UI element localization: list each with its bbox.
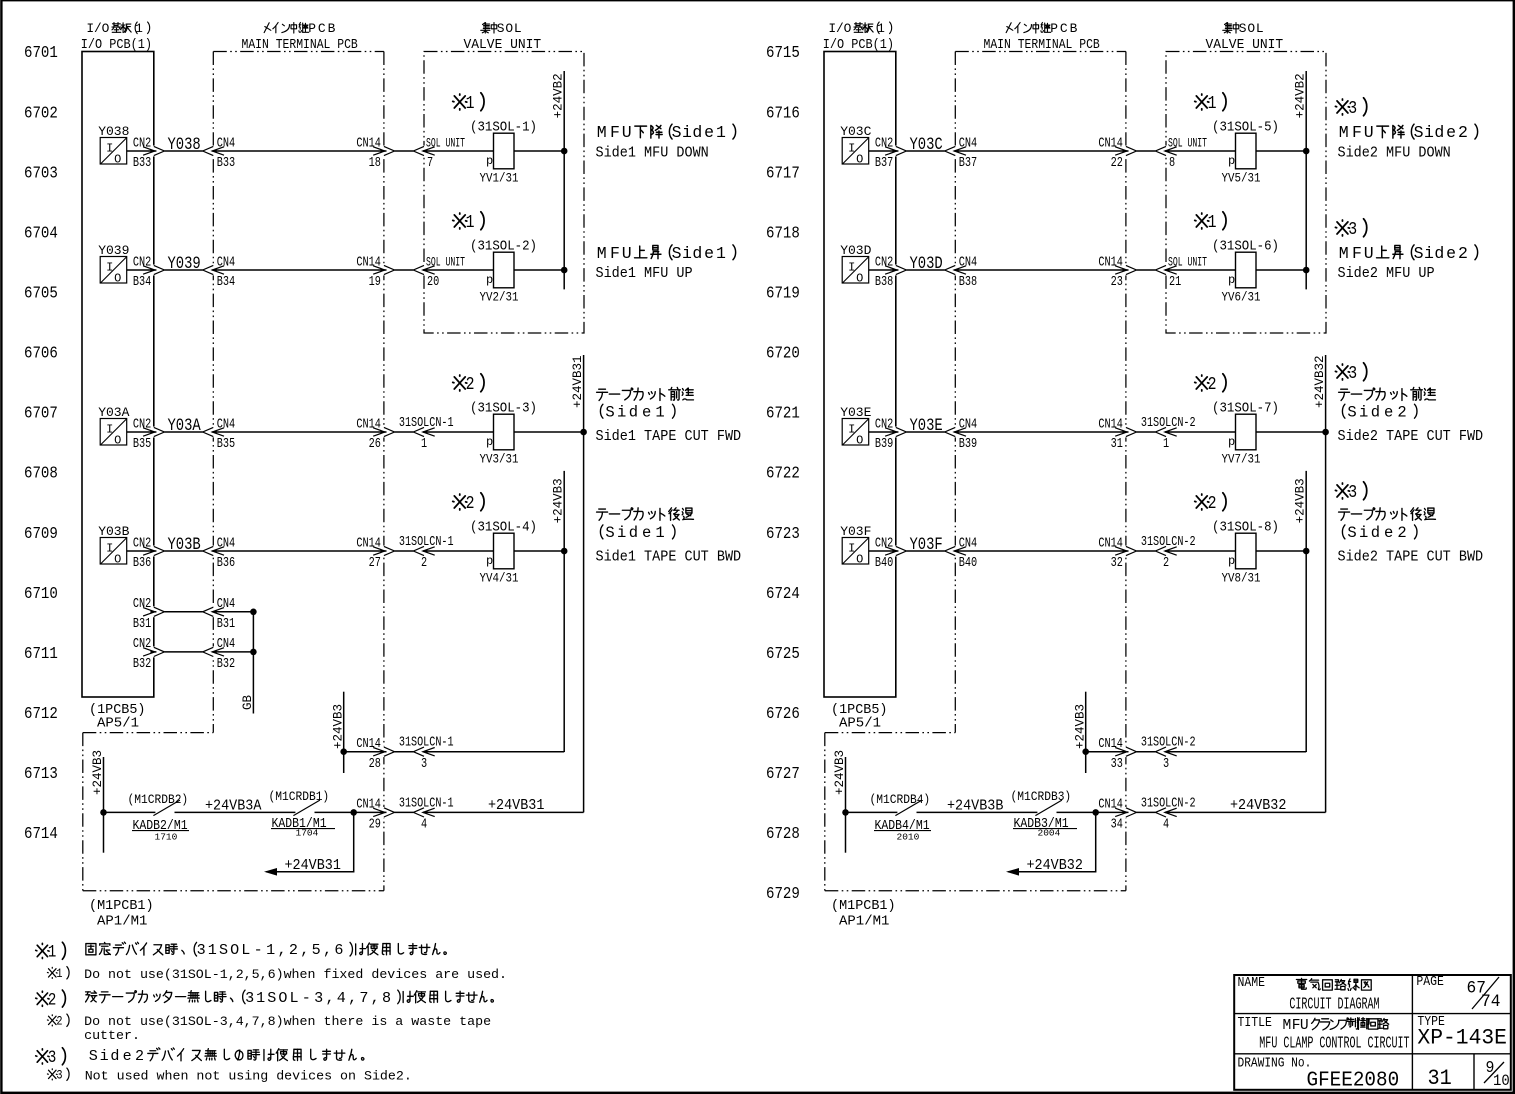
svg-text:e: e <box>642 403 651 421</box>
junction dot <box>250 649 257 656</box>
junction dot <box>340 748 347 755</box>
wire <box>164 651 202 653</box>
+24VB3 power stub at left <box>845 757 847 853</box>
svg-text:1: 1 <box>466 213 475 234</box>
svg-text:B33: B33 <box>133 155 151 171</box>
svg-text:O: O <box>856 553 863 567</box>
svg-text:I: I <box>106 142 113 156</box>
wire <box>917 811 1038 813</box>
net line-number column 6701..6714 <box>24 43 58 63</box>
connector CN14 pin 27 <box>373 546 394 555</box>
svg-text:1: 1 <box>877 21 885 36</box>
svg-text:2: 2 <box>421 555 427 571</box>
svg-text:CN4: CN4 <box>959 535 977 551</box>
svg-text:(31SOL-2): (31SOL-2) <box>470 238 537 254</box>
svg-text:SOL UNIT: SOL UNIT <box>426 137 465 151</box>
net label Y03A <box>168 415 202 435</box>
connector CN14 pin 18 <box>373 146 394 155</box>
svg-text:S: S <box>605 524 614 542</box>
connector CN4 pin B33 <box>203 146 224 155</box>
svg-text:Y03A: Y03A <box>98 405 129 420</box>
svg-text:+24VB32: +24VB32 <box>1313 355 1327 408</box>
note *2 (Japanese): no waste tape cutter <box>36 991 49 1006</box>
svg-text:p: p <box>1228 273 1235 287</box>
junction dot <box>842 809 849 816</box>
svg-text:e: e <box>1384 403 1393 421</box>
svg-text:F: F <box>1352 123 1362 142</box>
svg-text:S: S <box>1414 244 1424 263</box>
svg-text:O: O <box>856 153 863 167</box>
svg-text:YV3/31: YV3/31 <box>480 452 519 467</box>
svg-text:B40: B40 <box>959 555 977 571</box>
connector SOL UNIT pin 8 <box>1155 146 1176 155</box>
wire <box>514 150 564 152</box>
svg-text:GB: GB <box>241 694 255 710</box>
svg-text:(M1PCB1): (M1PCB1) <box>831 898 896 914</box>
svg-text:O: O <box>114 153 121 167</box>
svg-text:3: 3 <box>1348 99 1357 120</box>
net label +24VB32 <box>1230 797 1286 814</box>
svg-text:31SOLCN-1: 31SOLCN-1 <box>399 534 454 550</box>
svg-text:31: 31 <box>1111 436 1123 452</box>
solenoid valve YV2/31 (31SOL-2) <box>494 252 515 288</box>
I/O output symbol Y039 <box>100 257 127 284</box>
solenoid valve YV6/31 (31SOL-6) <box>1236 252 1257 288</box>
svg-text:B36: B36 <box>217 555 235 571</box>
wire <box>846 811 898 813</box>
wire <box>104 811 156 813</box>
wire <box>869 550 898 552</box>
svg-text:CN4: CN4 <box>217 254 235 270</box>
net label +24VB3B <box>947 798 1003 815</box>
title block TITLE cell: MFU CLAMP CONTROL CIRCUIT <box>1238 1014 1273 1030</box>
svg-text:AP1/M1: AP1/M1 <box>97 914 147 930</box>
title block DRAWING No. cell: GFEE2080 <box>1238 1054 1312 1071</box>
connector CN2 pin B36 <box>143 546 164 555</box>
svg-text:6715: 6715 <box>766 43 800 63</box>
connector CN14 pin 33 <box>1115 747 1136 756</box>
junction dot <box>561 267 568 274</box>
junction dot <box>1092 809 1099 816</box>
svg-text:CIRCUIT DIAGRAM: CIRCUIT DIAGRAM <box>1289 995 1379 1014</box>
svg-text:O: O <box>114 553 121 567</box>
note *3 (Japanese): not used without Side2 devices <box>36 1049 49 1064</box>
connector 31SOLCN-2 pin 3 <box>1155 747 1176 756</box>
svg-text:B37: B37 <box>959 155 977 171</box>
svg-text:CN14: CN14 <box>356 796 381 812</box>
connector CN4 pin B38 <box>945 265 966 274</box>
wire <box>1256 269 1306 271</box>
svg-text:YV5/31: YV5/31 <box>1222 171 1261 186</box>
svg-text:28: 28 <box>369 755 381 771</box>
branch arrow +24VB32 <box>1008 812 1096 871</box>
svg-text:YV4/31: YV4/31 <box>480 571 519 586</box>
svg-text:CN4: CN4 <box>959 416 977 432</box>
solenoid valve YV3/31 (31SOL-3) <box>494 414 515 450</box>
wire <box>906 269 944 271</box>
connector CN14 pin 22 <box>1115 146 1136 155</box>
svg-text:26: 26 <box>369 436 381 452</box>
svg-text:1: 1 <box>655 403 664 421</box>
svg-text:B39: B39 <box>959 436 977 452</box>
wire <box>954 431 1128 433</box>
junction dot <box>250 609 257 616</box>
svg-text:3: 3 <box>1163 755 1169 771</box>
svg-text:B36: B36 <box>133 555 151 571</box>
svg-text:Side1 TAPE CUT FWD: Side1 TAPE CUT FWD <box>596 429 742 446</box>
I/O output symbol Y03E <box>842 419 869 446</box>
junction dot <box>561 148 568 155</box>
svg-text:B34: B34 <box>133 274 151 290</box>
net label +24VB31 <box>488 797 544 814</box>
wire <box>127 269 156 271</box>
wire <box>1137 751 1156 753</box>
svg-text:1: 1 <box>266 941 275 959</box>
svg-text:10: 10 <box>1493 1073 1510 1090</box>
svg-text:6719: 6719 <box>766 283 800 303</box>
svg-text:I: I <box>106 261 113 275</box>
svg-text:3: 3 <box>314 989 323 1007</box>
note *2 (English) <box>47 1015 57 1026</box>
svg-text:(M1CRDB1): (M1CRDB1) <box>269 789 330 804</box>
svg-text:CN14: CN14 <box>1098 535 1123 551</box>
svg-text:I: I <box>848 142 855 156</box>
svg-text:+24VB3: +24VB3 <box>1073 704 1087 749</box>
net line-number column 6715..6729 <box>766 43 800 63</box>
svg-text:3: 3 <box>197 941 206 959</box>
I/O PCB(1) board box <box>824 52 896 698</box>
svg-text:Side2 TAPE CUT BWD: Side2 TAPE CUT BWD <box>1338 549 1484 566</box>
net label Y039 <box>168 253 201 273</box>
svg-text:d: d <box>1371 403 1380 421</box>
connector 31SOLCN-2 pin 2 <box>1155 546 1176 555</box>
svg-text:I: I <box>848 542 855 556</box>
svg-text:SOL UNIT: SOL UNIT <box>1168 137 1207 151</box>
connector SOL UNIT pin 7 <box>413 146 434 155</box>
svg-text:(M1PCB1): (M1PCB1) <box>89 898 154 914</box>
svg-text:22: 22 <box>1111 155 1123 171</box>
svg-text:6706: 6706 <box>24 343 58 363</box>
svg-text:S: S <box>672 244 682 263</box>
svg-text:/: / <box>836 21 844 36</box>
svg-text:YV6/31: YV6/31 <box>1222 290 1261 305</box>
connector CN4 pin B40 <box>945 546 966 555</box>
board label (M1PCB1) AP1/M1 <box>831 898 896 914</box>
svg-text:6713: 6713 <box>24 764 58 784</box>
svg-text:5: 5 <box>312 941 321 959</box>
svg-text:CN2: CN2 <box>133 135 151 151</box>
+24VB3 power stub at left <box>103 757 105 853</box>
title block frame <box>1234 975 1511 1090</box>
svg-text:GFEE2080: GFEE2080 <box>1307 1069 1400 1093</box>
board label (1PCB5) AP5/1 <box>89 702 145 718</box>
svg-text:CN2: CN2 <box>133 535 151 551</box>
svg-text:i: i <box>1359 524 1368 542</box>
connector SOL UNIT pin 20 <box>413 265 434 274</box>
svg-text:F: F <box>1352 244 1362 263</box>
svg-text:,: , <box>323 941 332 959</box>
svg-text:2010: 2010 <box>897 831 920 842</box>
+24VB3 power bus <box>1305 471 1307 752</box>
svg-text:(M1CRDB2): (M1CRDB2) <box>128 792 189 807</box>
solenoid valve YV5/31 (31SOL-5) <box>1236 133 1257 169</box>
svg-text:CN4: CN4 <box>959 254 977 270</box>
junction dot <box>1303 148 1310 155</box>
I/O PCB(1) board box <box>82 52 154 698</box>
svg-text:1: 1 <box>256 989 265 1007</box>
note mark *2 for (31SOL-7) <box>1195 375 1209 391</box>
wire <box>423 269 494 271</box>
svg-text:U: U <box>1300 1018 1309 1034</box>
svg-text:Y038: Y038 <box>98 124 129 139</box>
svg-text:VALVE UNIT: VALVE UNIT <box>1206 37 1284 52</box>
svg-text:L: L <box>241 941 250 959</box>
board label (1PCB5) AP5/1 <box>831 702 887 718</box>
svg-text:I/O PCB(1): I/O PCB(1) <box>823 37 894 53</box>
svg-text:6705: 6705 <box>24 283 58 303</box>
svg-text:CN14: CN14 <box>1098 135 1123 151</box>
solenoid valve YV8/31 (31SOL-8) <box>1236 533 1257 569</box>
svg-text:SOL UNIT: SOL UNIT <box>1168 256 1207 270</box>
wire <box>164 550 202 552</box>
svg-text:CN14: CN14 <box>356 254 381 270</box>
svg-text:MFU CLAMP CONTROL CIRCUIT: MFU CLAMP CONTROL CIRCUIT <box>1259 1034 1409 1053</box>
connector gaps in board edges <box>894 146 898 157</box>
junction dot <box>561 548 568 555</box>
svg-text:6722: 6722 <box>766 464 800 484</box>
svg-text:1710: 1710 <box>155 831 178 842</box>
svg-text:YV8/31: YV8/31 <box>1222 571 1261 586</box>
svg-text:YV7/31: YV7/31 <box>1222 452 1261 467</box>
svg-text:B32: B32 <box>133 656 151 672</box>
svg-text:B34: B34 <box>217 274 235 290</box>
svg-text:Side2 TAPE CUT FWD: Side2 TAPE CUT FWD <box>1338 429 1484 446</box>
svg-text:6727: 6727 <box>766 764 800 784</box>
svg-text:i: i <box>100 1047 109 1065</box>
svg-text:CN2: CN2 <box>133 416 151 432</box>
svg-text:e: e <box>1446 123 1456 142</box>
output label TAPE CUT FWD (Side2) <box>1335 364 1349 380</box>
connector CN2 pin B35 <box>143 427 164 436</box>
svg-text:d: d <box>1371 524 1380 542</box>
svg-text:CN4: CN4 <box>959 135 977 151</box>
net label Y03B <box>168 534 202 554</box>
wire <box>1086 751 1129 753</box>
svg-text:M: M <box>1283 1018 1292 1034</box>
branch arrow +24VB31 <box>266 812 354 871</box>
connector 31SOLCN-1 pin 2 <box>413 546 434 555</box>
svg-text:XP-143E: XP-143E <box>1417 1025 1507 1050</box>
svg-text:+24VB32: +24VB32 <box>1027 857 1083 874</box>
svg-text:6712: 6712 <box>24 704 58 724</box>
svg-text:6729: 6729 <box>766 884 800 904</box>
svg-text:+24VB3B: +24VB3B <box>947 798 1003 815</box>
wire <box>1165 751 1306 753</box>
svg-text:+24VB3: +24VB3 <box>552 478 566 523</box>
svg-text:31SOLCN-2: 31SOLCN-2 <box>1141 734 1196 750</box>
svg-text:Do not use(31SOL-3,4,7,8)when: Do not use(31SOL-3,4,7,8)when there is a… <box>84 1014 491 1029</box>
svg-text:2: 2 <box>1208 494 1217 515</box>
svg-text:Not used when not using device: Not used when not using devices on Side2… <box>85 1069 412 1084</box>
wire <box>1096 811 1129 813</box>
svg-text:p: p <box>1228 435 1235 449</box>
note *1 (English) <box>47 967 57 978</box>
svg-text:O: O <box>856 434 863 448</box>
wire <box>869 431 898 433</box>
svg-text:CN14: CN14 <box>356 135 381 151</box>
GB ground bus <box>252 612 254 714</box>
svg-text:p: p <box>1228 554 1235 568</box>
connector CN14 pin 34 <box>1115 808 1136 817</box>
svg-text:O: O <box>278 989 287 1007</box>
svg-text:3: 3 <box>56 1069 62 1083</box>
svg-text:CN14: CN14 <box>1098 796 1123 812</box>
wire <box>315 811 354 813</box>
title block PAGE cell: 67/74 <box>1416 973 1444 989</box>
svg-text:CN14: CN14 <box>1098 254 1123 270</box>
wire <box>1256 550 1306 552</box>
connector CN14 pin 19 <box>373 265 394 274</box>
svg-text:Side1 TAPE CUT BWD: Side1 TAPE CUT BWD <box>596 549 742 566</box>
svg-text:p: p <box>486 273 493 287</box>
junction dot <box>350 809 357 816</box>
svg-text:6707: 6707 <box>24 403 58 423</box>
note mark *2 for (31SOL-3) <box>453 375 467 391</box>
svg-text:,: , <box>300 941 309 959</box>
svg-text:6702: 6702 <box>24 103 58 123</box>
note mark *1 for (31SOL-1) <box>453 94 467 110</box>
title block sheet 9/10 <box>1486 1058 1495 1077</box>
svg-text:S: S <box>672 123 682 142</box>
wire <box>395 150 414 152</box>
svg-text:DRAWING No.: DRAWING No. <box>1238 1054 1312 1071</box>
wire <box>175 811 296 813</box>
wire <box>1137 811 1156 813</box>
net label Y03F <box>910 534 943 554</box>
output label TAPE CUT BWD (Side1) <box>597 509 608 520</box>
svg-text:MAIN TERMINAL PCB: MAIN TERMINAL PCB <box>984 37 1101 52</box>
svg-text:TITLE: TITLE <box>1238 1014 1273 1030</box>
wire <box>423 751 564 753</box>
net label +24VB3A <box>205 798 262 815</box>
svg-text:4: 4 <box>1163 816 1169 832</box>
svg-text:e: e <box>642 524 651 542</box>
wire <box>344 751 387 753</box>
svg-text:O: O <box>114 434 121 448</box>
svg-text:d: d <box>110 1047 119 1065</box>
I/O output symbol Y038 <box>100 138 127 165</box>
svg-text:CN14: CN14 <box>1098 736 1123 752</box>
I/O output symbol Y03F <box>842 538 869 565</box>
svg-text:O: O <box>856 272 863 286</box>
svg-text:CN14: CN14 <box>1098 416 1123 432</box>
MAIN TERMINAL PCB board outline <box>954 52 956 733</box>
connector CN4 pin B39 <box>945 427 966 436</box>
svg-text:e: e <box>1446 244 1456 263</box>
connector CN2 pin B38 <box>885 265 906 274</box>
svg-text:i: i <box>682 123 692 142</box>
wire <box>164 431 202 433</box>
svg-text:23: 23 <box>1111 274 1123 290</box>
svg-text:+24VB31: +24VB31 <box>488 797 544 814</box>
connector CN14 pin 29 <box>373 808 394 817</box>
VALVE UNIT box <box>424 52 584 334</box>
svg-text:S: S <box>1414 123 1424 142</box>
wire <box>1057 811 1096 813</box>
svg-text:31SOLCN-2: 31SOLCN-2 <box>1141 795 1196 811</box>
junction dot <box>580 429 587 436</box>
svg-text:1: 1 <box>1163 436 1169 452</box>
svg-text:L: L <box>1256 21 1264 36</box>
title block TYPE cell: XP-143E <box>1417 1013 1445 1029</box>
svg-text:L: L <box>289 989 298 1007</box>
svg-text:e: e <box>704 123 714 142</box>
svg-text:+24VB3: +24VB3 <box>331 704 345 749</box>
svg-text:6721: 6721 <box>766 403 800 423</box>
wire <box>1165 269 1236 271</box>
svg-text:+24VB3: +24VB3 <box>833 750 847 795</box>
I/O output symbol Y03B <box>100 538 127 565</box>
svg-text:Side2 MFU UP: Side2 MFU UP <box>1338 265 1435 282</box>
svg-text:B37: B37 <box>875 155 893 171</box>
svg-text:S: S <box>497 21 505 36</box>
svg-text:i: i <box>1359 403 1368 421</box>
svg-text:CN2: CN2 <box>875 254 893 270</box>
svg-text:6710: 6710 <box>24 584 58 604</box>
note *3 (English) <box>47 1069 57 1080</box>
svg-text:6714: 6714 <box>24 824 58 844</box>
wire <box>514 431 584 433</box>
svg-text:AP1/M1: AP1/M1 <box>839 914 889 930</box>
svg-text:CN2: CN2 <box>875 416 893 432</box>
wire <box>563 751 565 753</box>
wire <box>869 269 898 271</box>
note mark *1 for (31SOL-2) <box>453 213 467 229</box>
svg-text:,: , <box>277 941 286 959</box>
svg-text:1: 1 <box>48 942 56 962</box>
wire <box>212 269 386 271</box>
wire <box>1165 431 1236 433</box>
svg-text:F: F <box>610 244 620 263</box>
note mark *2 for (31SOL-4) <box>453 494 467 510</box>
title block NAME cell: CIRCUIT DIAGRAM <box>1238 974 1266 990</box>
svg-text:3: 3 <box>1348 220 1357 241</box>
solenoid valve YV4/31 (31SOL-4) <box>494 533 515 569</box>
svg-text:d: d <box>692 244 702 263</box>
svg-text:2: 2 <box>1397 524 1406 542</box>
svg-text:I: I <box>106 542 113 556</box>
svg-text:3: 3 <box>1348 483 1357 504</box>
svg-text:3: 3 <box>1348 364 1357 385</box>
svg-text:3: 3 <box>245 989 254 1007</box>
wire <box>423 431 494 433</box>
wire <box>423 550 494 552</box>
svg-text:-: - <box>254 941 263 959</box>
svg-text:B35: B35 <box>133 436 151 452</box>
wire <box>1165 150 1236 152</box>
I/O output symbol Y03D <box>842 257 869 284</box>
svg-text:6726: 6726 <box>766 704 800 724</box>
wire <box>354 811 387 813</box>
svg-text:1704: 1704 <box>296 827 319 838</box>
svg-text:2: 2 <box>135 1047 144 1065</box>
svg-text:6728: 6728 <box>766 824 800 844</box>
svg-text:3: 3 <box>48 1048 56 1068</box>
svg-text:6717: 6717 <box>766 163 800 183</box>
svg-text:Side2 MFU DOWN: Side2 MFU DOWN <box>1338 145 1451 162</box>
svg-text:S: S <box>605 403 614 421</box>
svg-text:AP5/1: AP5/1 <box>97 716 139 732</box>
